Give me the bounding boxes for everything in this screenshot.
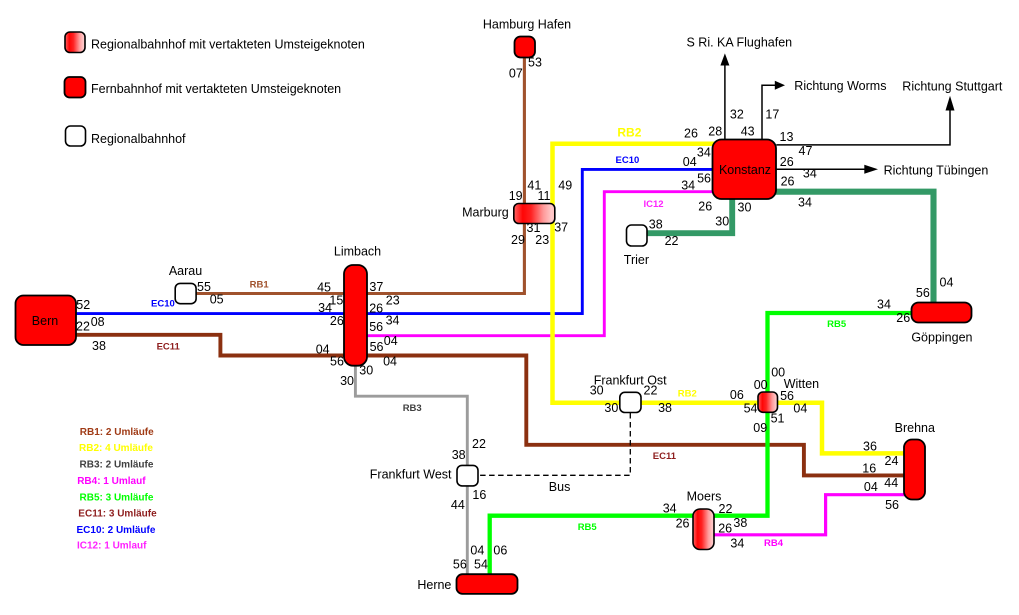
svg-text:Richtung Stuttgart: Richtung Stuttgart — [902, 79, 1003, 93]
svg-text:28: 28 — [708, 125, 722, 139]
svg-text:Frankfurt West: Frankfurt West — [370, 467, 452, 481]
svg-text:07: 07 — [509, 67, 523, 81]
svg-text:22: 22 — [76, 319, 90, 333]
svg-text:38: 38 — [92, 339, 106, 353]
svg-text:Fernbahnhof mit vertakteten Um: Fernbahnhof mit vertakteten Umsteigeknot… — [91, 82, 341, 96]
svg-text:RB5: RB5 — [827, 319, 847, 330]
svg-text:26: 26 — [369, 301, 383, 315]
svg-text:16: 16 — [472, 488, 486, 502]
svg-text:22: 22 — [665, 234, 679, 248]
svg-text:00: 00 — [771, 365, 785, 379]
svg-text:22: 22 — [644, 384, 658, 398]
svg-text:34: 34 — [663, 502, 677, 516]
svg-text:34: 34 — [798, 196, 812, 210]
svg-text:RB2: 4 Umläufe: RB2: 4 Umläufe — [79, 443, 153, 454]
svg-text:34: 34 — [697, 145, 711, 159]
svg-text:EC10: EC10 — [616, 155, 640, 166]
svg-text:30: 30 — [359, 364, 373, 378]
svg-text:Richtung Worms: Richtung Worms — [794, 79, 886, 93]
svg-text:56: 56 — [370, 340, 384, 354]
svg-text:38: 38 — [733, 516, 747, 530]
svg-text:04: 04 — [683, 155, 697, 169]
svg-text:09: 09 — [753, 421, 767, 435]
svg-text:Bus: Bus — [549, 480, 571, 494]
svg-text:RB4: 1 Umlauf: RB4: 1 Umlauf — [77, 476, 146, 487]
svg-text:38: 38 — [658, 401, 672, 415]
svg-text:53: 53 — [528, 56, 542, 70]
svg-text:04: 04 — [940, 276, 954, 290]
svg-text:EC10: EC10 — [151, 299, 175, 310]
svg-text:08: 08 — [91, 315, 105, 329]
svg-text:52: 52 — [76, 298, 90, 312]
svg-text:EC11: EC11 — [653, 451, 677, 462]
svg-text:38: 38 — [649, 217, 663, 231]
svg-text:30: 30 — [738, 200, 752, 214]
svg-text:56: 56 — [369, 320, 383, 334]
svg-text:RB5: RB5 — [578, 522, 598, 533]
svg-text:49: 49 — [558, 179, 572, 193]
svg-text:RB3: 2 Umläufe: RB3: 2 Umläufe — [80, 459, 154, 470]
svg-text:56: 56 — [885, 498, 899, 512]
svg-text:Limbach: Limbach — [334, 245, 381, 259]
svg-text:06: 06 — [493, 544, 507, 558]
svg-text:RB3: RB3 — [403, 403, 422, 414]
svg-text:30: 30 — [604, 401, 618, 415]
svg-text:24: 24 — [885, 454, 899, 468]
svg-text:Göppingen: Göppingen — [911, 330, 972, 344]
svg-text:RB4: RB4 — [764, 538, 784, 549]
svg-text:16: 16 — [862, 462, 876, 476]
svg-text:RB2: RB2 — [617, 126, 641, 140]
svg-text:37: 37 — [369, 280, 383, 294]
svg-text:30: 30 — [340, 374, 354, 388]
svg-text:34: 34 — [386, 313, 400, 327]
svg-text:22: 22 — [719, 502, 733, 516]
svg-text:45: 45 — [317, 281, 331, 295]
svg-text:43: 43 — [741, 125, 755, 139]
svg-text:30: 30 — [715, 215, 729, 229]
svg-text:26: 26 — [684, 127, 698, 141]
svg-text:26: 26 — [330, 314, 344, 328]
svg-text:44: 44 — [884, 476, 898, 490]
svg-text:Bern: Bern — [32, 314, 58, 328]
svg-text:RB5: 3 Umläufe: RB5: 3 Umläufe — [80, 493, 154, 504]
svg-text:06: 06 — [730, 388, 744, 402]
svg-text:38: 38 — [452, 448, 466, 462]
svg-text:17: 17 — [765, 107, 779, 121]
svg-text:IC12: 1 Umlauf: IC12: 1 Umlauf — [77, 541, 147, 552]
svg-text:04: 04 — [864, 480, 878, 494]
svg-text:S Ri. KA Flughafen: S Ri. KA Flughafen — [687, 36, 793, 50]
svg-text:34: 34 — [681, 179, 695, 193]
svg-text:26: 26 — [698, 199, 712, 213]
svg-text:IC12: IC12 — [644, 199, 664, 210]
svg-text:Trier: Trier — [624, 253, 649, 267]
svg-text:34: 34 — [318, 301, 332, 315]
svg-text:Richtung Tübingen: Richtung Tübingen — [884, 163, 989, 177]
svg-text:22: 22 — [472, 437, 486, 451]
svg-text:26: 26 — [780, 155, 794, 169]
svg-text:Herne: Herne — [417, 578, 451, 592]
svg-text:Regionalbahnhof: Regionalbahnhof — [91, 132, 186, 146]
svg-text:26: 26 — [896, 311, 910, 325]
svg-text:51: 51 — [771, 412, 785, 426]
svg-text:Marburg: Marburg — [462, 206, 509, 220]
svg-text:26: 26 — [718, 522, 732, 536]
svg-text:11: 11 — [538, 189, 551, 203]
svg-text:EC11: EC11 — [157, 341, 181, 352]
svg-text:44: 44 — [451, 498, 465, 512]
svg-text:EC11: 3 Umläufe: EC11: 3 Umläufe — [78, 509, 157, 520]
svg-text:RB2: RB2 — [678, 388, 697, 399]
svg-text:04: 04 — [316, 342, 330, 356]
svg-text:RB1: 2 Umläufe: RB1: 2 Umläufe — [80, 427, 154, 438]
svg-text:34: 34 — [730, 536, 744, 550]
svg-text:32: 32 — [730, 108, 744, 122]
svg-text:56: 56 — [453, 558, 467, 572]
svg-text:Regionalbahnhof mit vertaktete: Regionalbahnhof mit vertakteten Umsteige… — [91, 37, 365, 51]
svg-text:13: 13 — [780, 130, 794, 144]
svg-text:34: 34 — [877, 298, 891, 312]
svg-text:54: 54 — [744, 402, 758, 416]
svg-text:26: 26 — [676, 517, 690, 531]
svg-text:30: 30 — [590, 383, 604, 397]
svg-text:EC10: 2 Umläufe: EC10: 2 Umläufe — [77, 525, 156, 536]
svg-text:47: 47 — [799, 144, 813, 158]
svg-text:56: 56 — [916, 286, 930, 300]
svg-text:00: 00 — [754, 378, 768, 392]
svg-text:23: 23 — [535, 233, 549, 247]
svg-text:54: 54 — [474, 558, 488, 572]
svg-text:Brehna: Brehna — [895, 421, 935, 435]
svg-text:34: 34 — [803, 166, 817, 180]
svg-text:04: 04 — [470, 544, 484, 558]
svg-text:36: 36 — [863, 439, 877, 453]
svg-text:04: 04 — [383, 354, 397, 368]
svg-text:Hamburg Hafen: Hamburg Hafen — [483, 18, 571, 32]
svg-text:Konstanz: Konstanz — [719, 163, 771, 177]
svg-text:19: 19 — [509, 189, 523, 203]
svg-text:Aarau: Aarau — [169, 264, 202, 278]
svg-text:29: 29 — [511, 233, 525, 247]
svg-text:56: 56 — [330, 355, 344, 369]
svg-text:26: 26 — [781, 174, 795, 188]
svg-text:23: 23 — [386, 294, 400, 308]
svg-text:04: 04 — [793, 402, 807, 416]
svg-text:56: 56 — [697, 172, 711, 186]
svg-text:37: 37 — [554, 221, 568, 235]
svg-text:05: 05 — [210, 292, 224, 306]
svg-text:Moers: Moers — [687, 489, 722, 503]
svg-text:RB1: RB1 — [250, 279, 270, 290]
svg-text:04: 04 — [384, 334, 398, 348]
svg-text:56: 56 — [780, 389, 794, 403]
